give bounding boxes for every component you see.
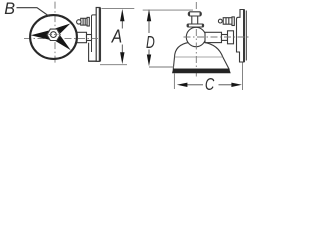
dim D lower arrow: [148, 50, 150, 61]
mounting plate (edge view): [237, 10, 247, 63]
bell skirt joint line: [175, 56, 223, 58]
dim A top extension line: [102, 7, 135, 9]
pivot horizontal centerline: [184, 36, 250, 38]
bracket hub arm (side view): [77, 32, 92, 42]
dim D bottom extension line: [149, 66, 174, 68]
leader line from B: [17, 8, 50, 17]
bell top cap finial: [187, 12, 204, 27]
dim C right extension line: [242, 63, 244, 91]
bracket set screw (side view): [77, 17, 90, 26]
dim A bottom extension line: [100, 64, 127, 66]
wheel horizontal centerline: [24, 38, 98, 40]
wheel hub circle: [51, 32, 57, 38]
dim D top extension line: [143, 9, 193, 11]
bracket set screw: [218, 17, 234, 26]
bell dome: [173, 42, 229, 69]
bell bottom rim band: [172, 69, 230, 73]
wheel spoke left: [31, 30, 50, 39]
dim C left extension line: [173, 74, 175, 90]
svg-text:A: A: [111, 27, 122, 47]
bell pivot arm: [205, 31, 234, 44]
dim A lower arrow: [121, 45, 123, 59]
dim C line left arrow: [185, 84, 203, 86]
dim C line right arrow: [219, 84, 234, 86]
wheel spoke lower-right: [55, 36, 71, 50]
wheel outer ring: [30, 15, 77, 59]
dim A upper arrow: [121, 14, 123, 29]
wheel vertical centerline: [54, 2, 56, 64]
dim D upper arrow: [148, 14, 150, 33]
svg-text:D: D: [146, 32, 155, 52]
wheel spoke upper-right: [55, 24, 70, 34]
wheel hub crosshair: [49, 34, 59, 36]
wheel hub hex nut: [47, 29, 60, 40]
svg-text:C: C: [205, 74, 215, 93]
bell hub circle: [186, 27, 205, 46]
bell vertical centerline: [195, 2, 197, 78]
bracket yoke below arm: [88, 43, 90, 62]
bracket mounting plate (side view): [92, 8, 100, 62]
svg-text:B: B: [4, 0, 15, 18]
